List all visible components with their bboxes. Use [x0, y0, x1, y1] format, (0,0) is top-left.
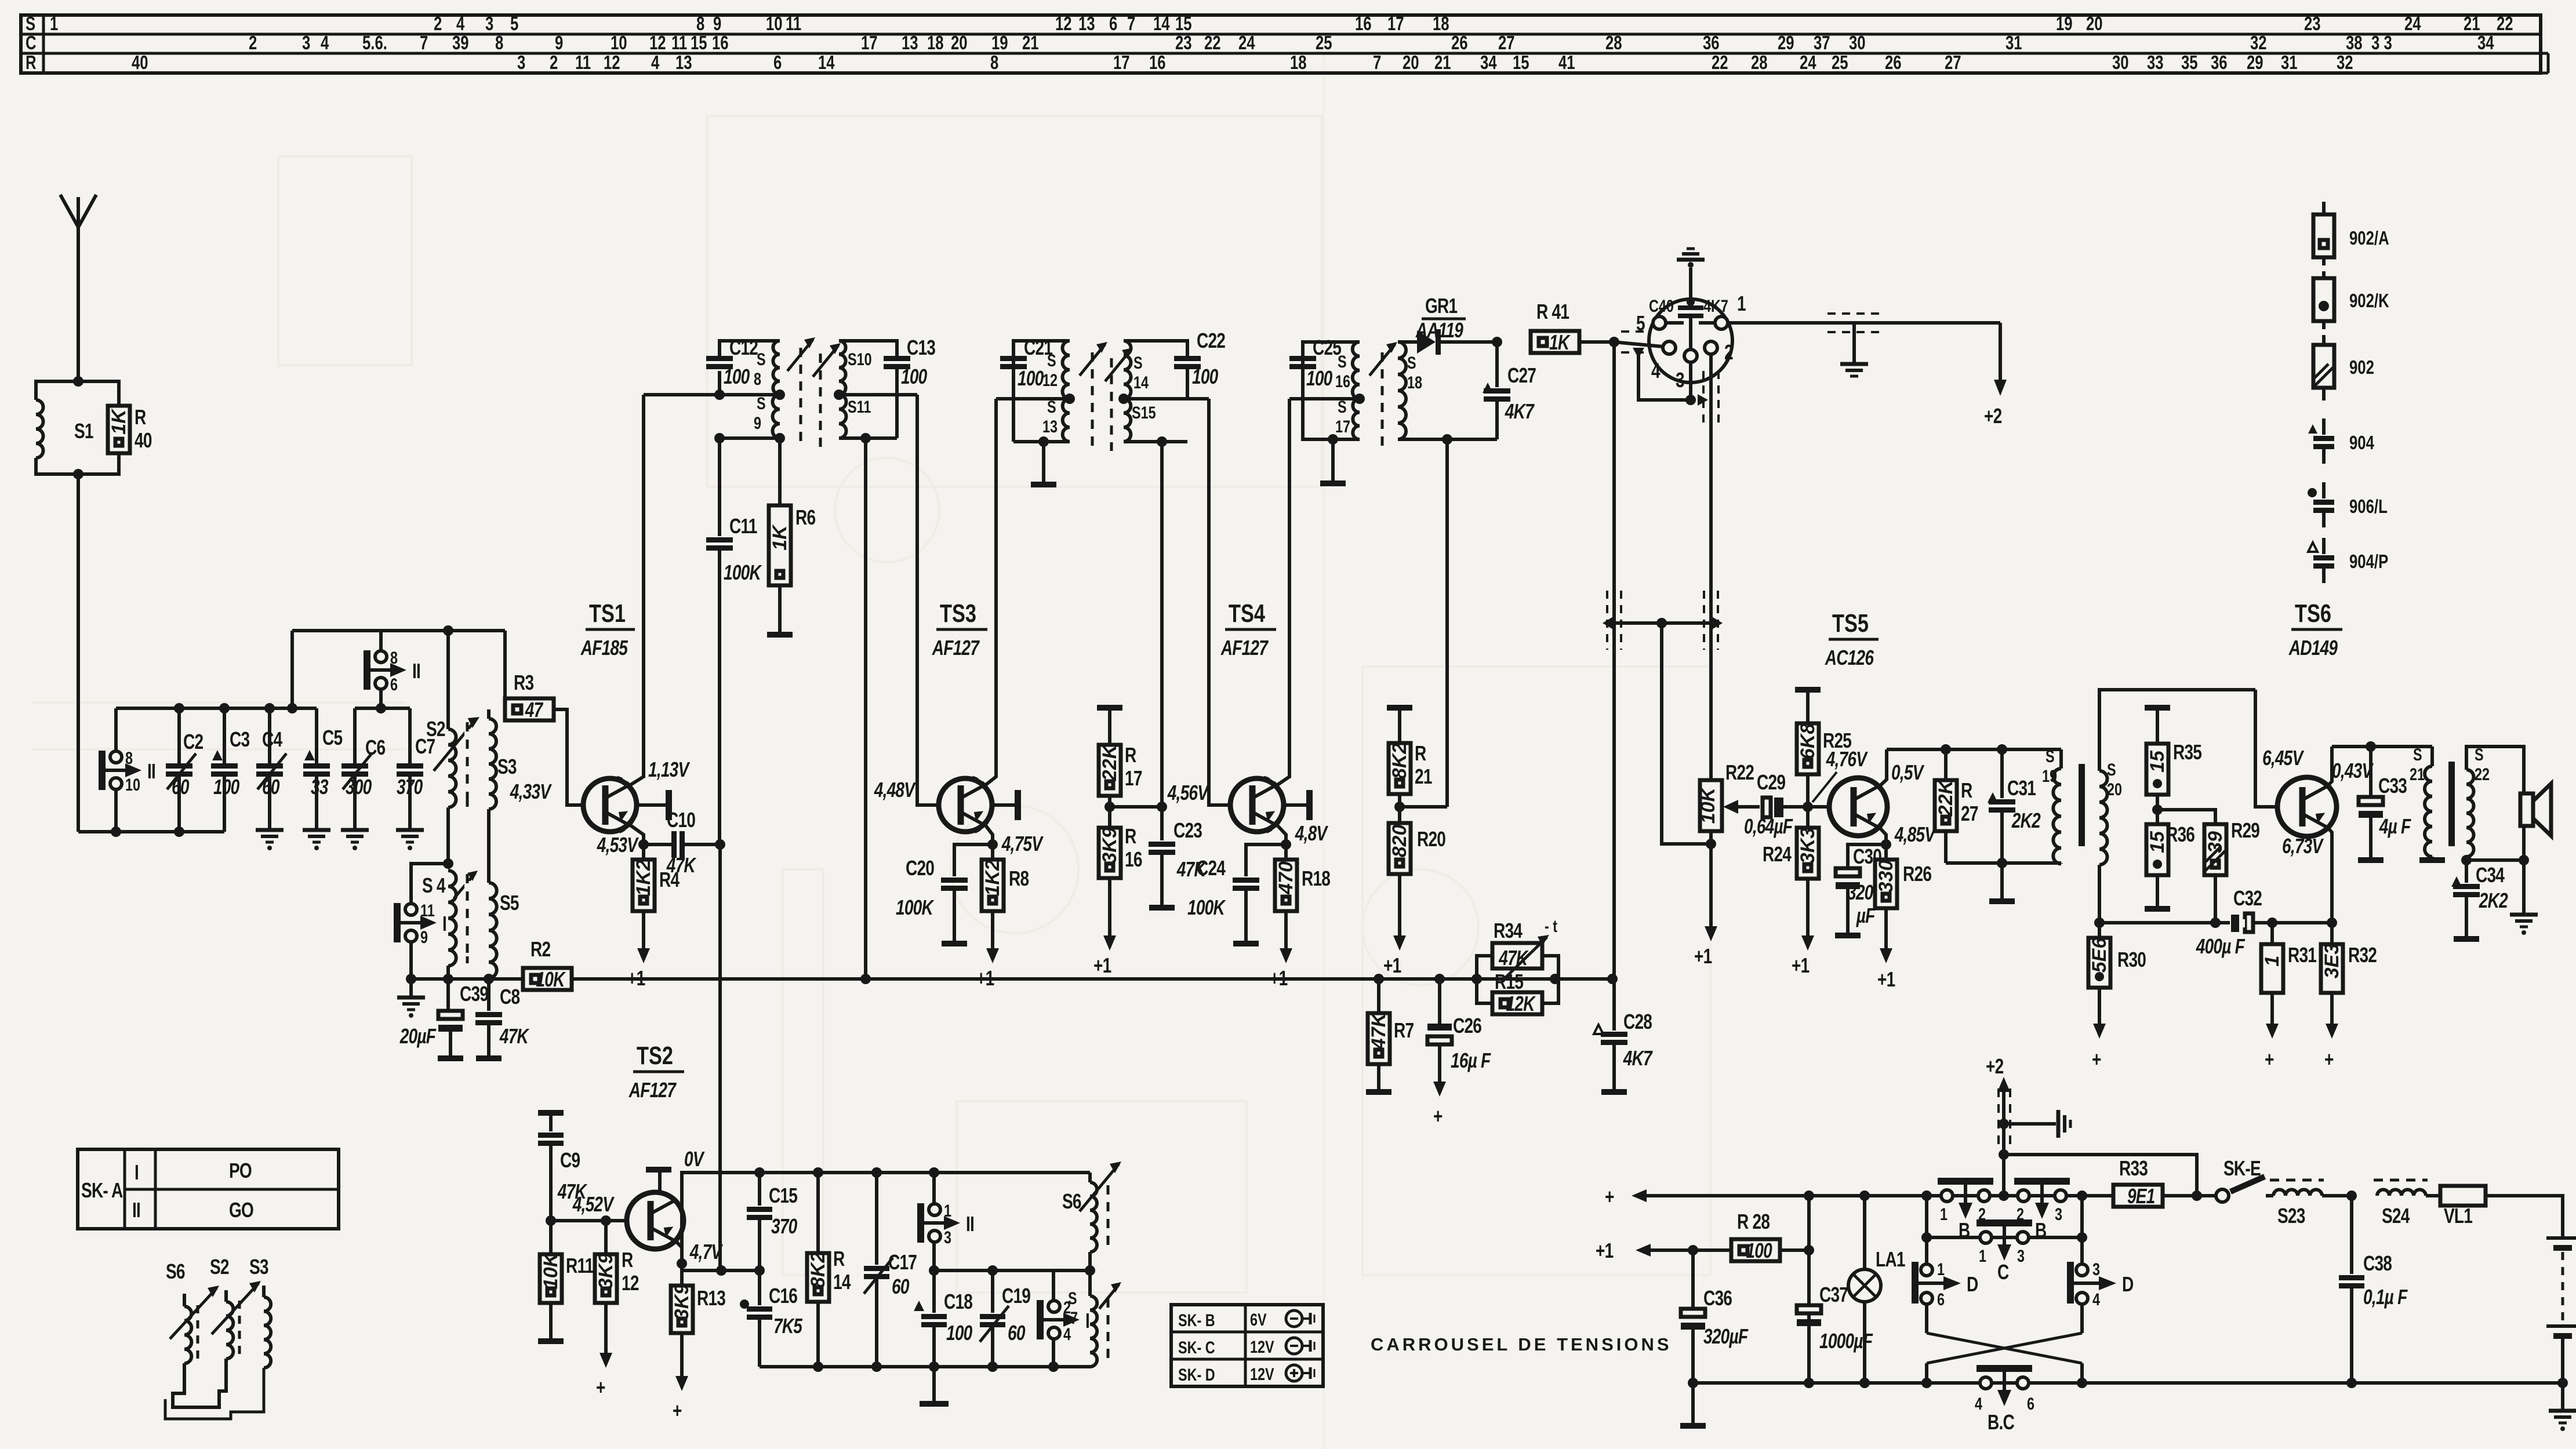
shield lead TS1 — [637, 790, 672, 820]
svg-text:4K7: 4K7 — [1623, 1047, 1654, 1070]
svg-text:904: 904 — [2349, 432, 2374, 454]
svg-text:19: 19 — [2042, 766, 2057, 785]
svg-text:22: 22 — [1204, 32, 1221, 54]
table row S numbers — [50, 13, 2513, 35]
svg-text:15: 15 — [1175, 13, 1192, 35]
wire link bar — [1603, 616, 1723, 630]
svg-text:C39: C39 — [460, 982, 488, 1006]
switch contact SK-A II pins 1/3 oscillator — [917, 1173, 974, 1270]
svg-text:SK- D: SK- D — [1178, 1365, 1215, 1384]
antenna — [60, 195, 96, 383]
svg-text:100: 100 — [1018, 367, 1044, 390]
capacitor C24 100K — [1187, 844, 1286, 944]
svg-text:14: 14 — [833, 1270, 851, 1294]
svg-text:4,75V: 4,75V — [1001, 832, 1044, 855]
resistor R8 1K2 — [982, 844, 1029, 911]
svg-text:300: 300 — [346, 776, 372, 799]
svg-text:1: 1 — [1737, 292, 1746, 315]
capacitor C8 47K — [475, 979, 530, 1058]
wire TS4 collector riser — [1277, 399, 1289, 785]
wire cap bus C2-C5 — [116, 703, 317, 713]
label TS4 AF127 — [1220, 599, 1276, 660]
switch contact B.C bottom — [1975, 1365, 2034, 1434]
svg-text:28: 28 — [1751, 52, 1768, 74]
svg-text:17: 17 — [1113, 52, 1130, 74]
svg-text:R35: R35 — [2173, 741, 2202, 764]
wire oscillator bottom rail — [760, 1361, 1090, 1404]
svg-text:C16: C16 — [769, 1284, 797, 1308]
svg-text:S: S — [2107, 760, 2116, 779]
transistor TS5 — [1829, 778, 1887, 836]
svg-text:C5: C5 — [322, 726, 343, 749]
svg-text:7: 7 — [420, 32, 428, 54]
svg-text:6: 6 — [390, 675, 398, 694]
svg-text:C36: C36 — [1703, 1287, 1732, 1310]
svg-text:4K7: 4K7 — [1703, 296, 1728, 315]
capacitor C13 100 — [839, 336, 935, 438]
svg-text:+: + — [2324, 1048, 2334, 1071]
svg-text:3 3: 3 3 — [2371, 32, 2392, 54]
resistor R4 1K2 — [633, 844, 680, 911]
svg-text:13: 13 — [902, 32, 918, 54]
terminal + under R13 — [680, 1333, 684, 1379]
capacitor C25 100 — [1289, 336, 1360, 399]
svg-text:60: 60 — [892, 1275, 909, 1298]
svg-text:320µF: 320µF — [1703, 1325, 1749, 1348]
svg-text:R: R — [26, 52, 37, 74]
svg-text:2: 2 — [434, 13, 442, 35]
coupling dashes IFT1 — [801, 348, 820, 449]
svg-text:C8: C8 — [500, 985, 519, 1009]
svg-text:100K: 100K — [1187, 896, 1226, 919]
wire — [32, 52, 1710, 1449]
switch contact B right — [2014, 1178, 2070, 1242]
coil S18 — [1398, 342, 1422, 439]
wire AGC to +1 rail — [572, 974, 1618, 984]
svg-text:12: 12 — [604, 52, 620, 74]
svg-text:C33: C33 — [2378, 774, 2407, 798]
svg-text:47: 47 — [525, 698, 544, 722]
ground under C5 — [303, 828, 330, 832]
svg-text:60: 60 — [262, 776, 279, 799]
svg-text:4K7: 4K7 — [1505, 400, 1535, 423]
svg-text:20: 20 — [2107, 780, 2122, 799]
wire TS1 collector riser — [630, 395, 644, 785]
svg-text:S1: S1 — [74, 420, 94, 443]
resistor R17 22K — [1097, 708, 1142, 828]
wire TS3 collector riser — [985, 399, 996, 785]
svg-text:36: 36 — [1703, 32, 1720, 54]
capacitor C27 4K7 — [1483, 337, 1536, 439]
coil S12/S13 — [1042, 341, 1070, 442]
svg-text:820: 820 — [1389, 825, 1411, 858]
svg-text:39: 39 — [452, 32, 469, 54]
svg-text:2K2: 2K2 — [2011, 809, 2041, 832]
capacitor C10 47K coupling — [644, 809, 725, 877]
svg-text:3: 3 — [485, 13, 493, 35]
svg-text:5.6.: 5.6. — [362, 32, 387, 54]
svg-text:D: D — [1967, 1273, 1978, 1296]
svg-text:24: 24 — [1238, 32, 1255, 54]
capacitor C15 370 — [747, 1173, 798, 1276]
svg-text:18: 18 — [927, 32, 944, 54]
svg-text:SK- A: SK- A — [81, 1179, 123, 1202]
capacitor C5 33 — [303, 708, 343, 830]
svg-text:100: 100 — [1192, 365, 1218, 388]
svg-text:10: 10 — [766, 13, 783, 35]
wire C37 column — [1807, 1196, 1811, 1383]
coil S8/S9 — [754, 341, 780, 438]
svg-text:3K9: 3K9 — [595, 1253, 617, 1289]
coupling dashes IFT3 — [1381, 352, 1384, 446]
svg-text:R: R — [622, 1248, 633, 1272]
svg-text:AF127: AF127 — [932, 636, 980, 660]
svg-text:C28: C28 — [1623, 1010, 1652, 1033]
resistor R2 10K — [523, 938, 572, 991]
coil pictogram S6 S2 S3 — [165, 1255, 271, 1419]
svg-text:4,53V: 4,53V — [597, 833, 639, 857]
wire R41 node down — [1612, 342, 1616, 979]
label TS2 AF127 — [628, 1042, 684, 1102]
svg-text:4: 4 — [1651, 359, 1661, 383]
svg-text:S24: S24 — [2382, 1204, 2410, 1228]
connector pin 5 — [1636, 312, 1684, 335]
wire IFT2 tap to TS4 base riser — [1118, 394, 1230, 805]
resistor R26 330 — [1875, 844, 1931, 908]
svg-text:S: S — [2045, 747, 2055, 766]
svg-text:S: S — [1407, 353, 1416, 372]
svg-text:0,43V: 0,43V — [2332, 759, 2374, 782]
svg-text:3: 3 — [2055, 1204, 2062, 1224]
svg-text:26: 26 — [1885, 52, 1902, 74]
oscillator coil S6 — [1062, 1173, 1097, 1252]
svg-text:1: 1 — [1979, 1246, 1986, 1265]
svg-text:4,56V: 4,56V — [1167, 781, 1209, 804]
wire IFT3 right bottom rail — [1398, 434, 1497, 445]
svg-text:100: 100 — [724, 365, 750, 388]
capacitor C22 100 — [1124, 329, 1225, 399]
svg-text:17: 17 — [861, 32, 878, 54]
svg-text:3K9: 3K9 — [671, 1284, 693, 1320]
svg-text:10K: 10K — [540, 1251, 562, 1289]
wire — [77, 380, 80, 383]
switch SK-E — [2216, 1157, 2273, 1202]
svg-text:7: 7 — [1373, 52, 1381, 74]
wire IFT2 right bottom rail — [1124, 436, 1187, 807]
terminal +2 power entry — [1986, 1055, 2010, 1201]
svg-text:4,52V: 4,52V — [572, 1193, 615, 1216]
svg-text:2: 2 — [249, 32, 257, 54]
svg-text:R15: R15 — [1495, 970, 1524, 993]
table SK-B SK-C SK-D — [1171, 1305, 1323, 1386]
svg-text:TS2: TS2 — [637, 1042, 673, 1070]
svg-text:7: 7 — [1070, 1308, 1078, 1327]
choke S23 — [2270, 1180, 2357, 1228]
terminal + under R12 — [604, 1303, 608, 1356]
svg-text:R: R — [1961, 779, 1972, 802]
wire TS2 emitter — [675, 1240, 723, 1269]
capacitor C31 2K2 — [1988, 749, 2041, 863]
switch contact B left — [1938, 1178, 1993, 1242]
svg-text:R 41: R 41 — [1536, 300, 1569, 323]
wire S6-S7 — [1088, 1252, 1092, 1296]
svg-text:8: 8 — [990, 52, 998, 74]
svg-text:II: II — [966, 1213, 974, 1236]
svg-text:1,13V: 1,13V — [648, 758, 690, 781]
svg-text:37: 37 — [1814, 32, 1830, 54]
svg-text:9E1: 9E1 — [2127, 1185, 2155, 1208]
capacitor C4 60 variable — [256, 708, 286, 830]
svg-text:27: 27 — [1498, 32, 1515, 54]
trimmer arrow through S4 — [454, 871, 478, 898]
svg-text:29: 29 — [1778, 32, 1794, 54]
capacitor C39 20uF electrolytic — [399, 979, 488, 1058]
svg-text:32: 32 — [2250, 32, 2267, 54]
svg-text:TS1: TS1 — [589, 599, 626, 628]
wire TS4 emitter — [1277, 822, 1328, 850]
svg-text:6: 6 — [2027, 1394, 2034, 1413]
wire riser to C bus — [290, 631, 294, 708]
svg-text:8: 8 — [495, 32, 503, 54]
capacitor C36 320uF — [1680, 1250, 1749, 1426]
svg-text:C38: C38 — [2363, 1252, 2392, 1275]
resistor R30 5E6 — [2088, 923, 2146, 988]
capacitor C6 300 variable — [341, 708, 385, 830]
svg-text:S6: S6 — [1062, 1190, 1081, 1213]
label TS1 AF185 — [580, 599, 635, 660]
driver transformer S19 — [2042, 747, 2061, 864]
svg-text:60: 60 — [1008, 1321, 1025, 1345]
terminal +1 under R22 — [1709, 844, 1713, 930]
terminal +1 under R26 — [1884, 908, 1888, 952]
svg-text:21: 21 — [2410, 764, 2425, 784]
svg-text:C22: C22 — [1197, 329, 1225, 352]
svg-text:C37: C37 — [1819, 1283, 1848, 1306]
svg-text:5: 5 — [1636, 312, 1645, 335]
svg-text:+: + — [2265, 1048, 2274, 1071]
legend resistor 902 — [2313, 335, 2374, 401]
wire S3-S5 — [487, 809, 491, 883]
capacitor C12 100 — [706, 336, 780, 395]
resistor R27 22K — [1935, 749, 1978, 863]
svg-text:R34: R34 — [1494, 919, 1523, 942]
svg-text:16: 16 — [1125, 848, 1142, 871]
svg-text:0V: 0V — [684, 1148, 705, 1171]
svg-text:S: S — [757, 394, 766, 413]
svg-text:+1: +1 — [1596, 1239, 1614, 1262]
svg-text:II: II — [412, 660, 420, 683]
svg-text:902/K: 902/K — [2349, 290, 2389, 312]
capacitor C28 4K7 — [1594, 979, 1653, 1092]
wire IFT1 right bottom rail — [839, 433, 897, 979]
wire TS6 emitter down — [2327, 827, 2337, 928]
resistor R36 15 — [2145, 823, 2194, 909]
svg-text:C6: C6 — [365, 736, 385, 759]
svg-text:4,7V: 4,7V — [689, 1240, 723, 1264]
svg-text:LA1: LA1 — [1876, 1248, 1906, 1271]
svg-text:9: 9 — [754, 413, 761, 432]
coupling dash marks — [466, 722, 469, 963]
svg-text:9: 9 — [555, 32, 563, 54]
svg-text:C10: C10 — [667, 809, 695, 832]
terminal + under C26 — [1438, 1044, 1441, 1085]
svg-text:B.C: B.C — [1988, 1411, 2015, 1434]
resistor R24 3K3 — [1763, 828, 1819, 879]
svg-text:S6: S6 — [166, 1260, 185, 1283]
svg-text:- t: - t — [1545, 916, 1557, 935]
wire AGC bus — [406, 974, 523, 984]
svg-text:29: 29 — [2247, 52, 2263, 74]
svg-text:1K2: 1K2 — [982, 860, 1004, 895]
shield lead TS4 — [1284, 790, 1313, 820]
svg-text:C40: C40 — [1649, 296, 1674, 315]
svg-text:µF: µF — [1856, 904, 1876, 927]
wiper arrow into R22 — [1723, 800, 1760, 814]
terminal +1 under R20 — [1398, 874, 1401, 939]
svg-text:+2: +2 — [1986, 1055, 2003, 1078]
svg-text:S: S — [1338, 352, 1347, 371]
svg-text:SK- B: SK- B — [1178, 1310, 1215, 1330]
switch contact SK-A II pins 8/10 — [99, 708, 155, 832]
resistor R6 1K — [767, 438, 815, 635]
svg-text:3: 3 — [2017, 1246, 2025, 1265]
wiring table S/C/R rows — [21, 13, 2548, 74]
wire TS3 emitter — [985, 825, 1044, 855]
svg-text:13: 13 — [675, 52, 692, 74]
table row C numbers — [249, 32, 2494, 54]
wire IFT3 left bottom rail — [1303, 399, 1360, 483]
svg-text:17: 17 — [1387, 13, 1404, 35]
svg-text:31: 31 — [2281, 52, 2298, 74]
svg-text:470: 470 — [1275, 861, 1297, 895]
svg-text:S3: S3 — [249, 1255, 268, 1279]
svg-text:400µ F: 400µ F — [2196, 935, 2246, 958]
shield dashes at R41 node — [1621, 332, 1658, 352]
svg-text:+1: +1 — [1877, 968, 1895, 991]
coil S2 — [426, 718, 456, 807]
terminal +1 under R4 — [642, 911, 645, 952]
svg-text:33: 33 — [311, 776, 328, 799]
svg-text:3: 3 — [944, 1228, 951, 1247]
svg-text:R7: R7 — [1394, 1019, 1414, 1042]
svg-text:3: 3 — [302, 32, 310, 54]
wire R21 node to S18 riser — [1400, 438, 1447, 807]
svg-text:100: 100 — [901, 365, 927, 388]
svg-text:11: 11 — [671, 32, 687, 54]
svg-text:39: 39 — [2204, 831, 2226, 853]
svg-text:20: 20 — [1403, 52, 1419, 74]
svg-text:R: R — [1125, 825, 1136, 848]
wire TS6 base — [2255, 690, 2279, 807]
svg-text:4,76V: 4,76V — [1826, 748, 1868, 771]
wire +2 to switch node — [2004, 1155, 2197, 1196]
resistor R31 1 — [2261, 923, 2317, 993]
svg-text:C34: C34 — [2476, 864, 2505, 887]
wire TS6 collector rail — [2332, 741, 2432, 752]
resistor R13 3K9 — [671, 1264, 725, 1333]
wire TS2 base node — [546, 1193, 628, 1226]
svg-text:+1: +1 — [1792, 954, 1810, 977]
svg-text:C: C — [1997, 1261, 2009, 1284]
ground above connector — [1677, 249, 1705, 285]
coupling dashes S6/S7 — [1107, 1185, 1110, 1365]
wire pin3 link — [1633, 348, 1708, 406]
label 4,76V with pointer — [1812, 748, 1868, 802]
svg-text:24: 24 — [1800, 52, 1816, 74]
svg-text:R: R — [1125, 744, 1136, 767]
wire speaker return — [2466, 826, 2529, 913]
svg-text:1: 1 — [1940, 1204, 1948, 1224]
svg-text:16: 16 — [1149, 52, 1166, 74]
coil S3 — [489, 709, 517, 809]
svg-text:CARROUSEL DE TENSIONS: CARROUSEL DE TENSIONS — [1371, 1334, 1672, 1355]
terminal + feed arrow — [1605, 1185, 1809, 1208]
svg-text:6,73V: 6,73V — [2282, 835, 2324, 858]
capacitor C2 60 variable — [166, 708, 203, 832]
capacitor C11 100K — [706, 438, 762, 844]
svg-text:11: 11 — [786, 13, 801, 35]
svg-text:4,85V: 4,85V — [1894, 823, 1936, 846]
capacitor C9 47K — [538, 1113, 588, 1221]
svg-text:12: 12 — [1042, 370, 1058, 389]
svg-text:33: 33 — [2147, 52, 2164, 74]
svg-text:+2: +2 — [1984, 405, 2001, 428]
svg-text:R: R — [135, 406, 146, 429]
svg-text:C23: C23 — [1173, 819, 1202, 842]
tuning arrows IFT1 — [787, 337, 841, 377]
svg-text:370: 370 — [771, 1215, 797, 1238]
wire TS1 emitter — [597, 825, 649, 857]
svg-text:21: 21 — [1415, 765, 1432, 788]
svg-text:3: 3 — [2092, 1259, 2100, 1279]
terminal + under R32 — [2330, 993, 2334, 1027]
svg-text:C24: C24 — [1197, 857, 1226, 880]
svg-text:8: 8 — [696, 13, 704, 35]
wire TS6 collector riser — [2327, 747, 2332, 787]
svg-text:I: I — [135, 1161, 139, 1184]
svg-text:R31: R31 — [2288, 944, 2317, 967]
svg-text:1: 1 — [1937, 1259, 1945, 1279]
svg-text:12V: 12V — [1250, 1337, 1274, 1356]
svg-text:1K: 1K — [769, 524, 791, 551]
svg-text:35: 35 — [2181, 52, 2198, 74]
connector pin 2 — [1705, 341, 1733, 364]
resistor R33 9E1 — [2113, 1157, 2216, 1208]
wire TS5 output rail bottom — [1946, 858, 2061, 901]
svg-text:16: 16 — [712, 32, 729, 54]
svg-text:31: 31 — [2005, 32, 2022, 54]
resistor R16 3K9 — [1099, 825, 1142, 878]
svg-text:13: 13 — [1078, 13, 1095, 35]
switch contact SK-A II pins 8/6 upper — [364, 631, 420, 708]
svg-text:2K2: 2K2 — [2479, 889, 2508, 912]
svg-text:19: 19 — [2056, 13, 2073, 35]
svg-text:S2: S2 — [426, 718, 445, 741]
svg-text:20µF: 20µF — [399, 1025, 437, 1048]
svg-text:16: 16 — [1355, 13, 1372, 35]
svg-text:TS4: TS4 — [1229, 599, 1265, 628]
capacitor C7 370 — [397, 708, 435, 830]
svg-text:SK- C: SK- C — [1178, 1338, 1215, 1357]
resistor R35 15 — [2145, 708, 2202, 824]
resistor R7 47K — [1366, 979, 1414, 1092]
wire divider to S15 node 4,56V — [1110, 781, 1209, 812]
svg-text:C12: C12 — [729, 336, 758, 359]
svg-text:21: 21 — [1434, 52, 1451, 74]
svg-text:4: 4 — [1063, 1324, 1071, 1344]
svg-text:5: 5 — [510, 13, 518, 35]
legend capacitor 904 — [2308, 418, 2374, 464]
